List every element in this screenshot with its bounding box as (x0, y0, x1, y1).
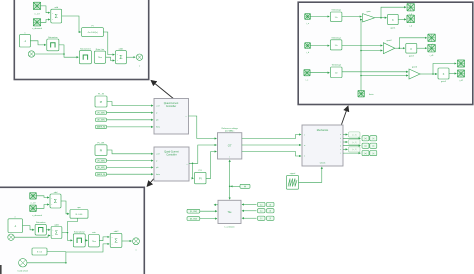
svg-text:+: + (51, 198, 52, 200)
svg-text:rpm: rpm (77, 206, 81, 209)
svg-text:Σ: Σ (55, 14, 58, 20)
svg-text:-2s+100/(s): -2s+100/(s) (87, 32, 98, 34)
svg-text:TimDelay1: TimDelay1 (331, 37, 341, 39)
svg-text:i_c: i_c (305, 79, 308, 81)
svg-text:PI: PI (100, 148, 103, 152)
svg-text:FL_W: FL_W (98, 94, 105, 96)
svg-text:+: + (111, 237, 112, 239)
svg-text:K: 0.5: K: 0.5 (37, 251, 43, 253)
svg-text:TimDelay0: TimDelay0 (331, 10, 341, 12)
svg-text:+: + (51, 204, 52, 206)
svg-text:(inv/TAB) c: (inv/TAB) c (225, 130, 235, 133)
svg-text:[w_fl]: [w_fl] (352, 134, 357, 136)
svg-text:[FL_MW]: [FL_MW] (98, 113, 105, 115)
svg-text:i_ref: i_ref (155, 104, 159, 107)
svg-text:T: T (304, 156, 305, 158)
svg-text:Saturation1: Saturation1 (80, 47, 91, 50)
svg-text:signal: signal (290, 173, 296, 175)
svg-text:Σ: Σ (114, 238, 117, 244)
svg-text:theta: theta (156, 173, 160, 176)
svg-text:PI: PI (100, 100, 103, 104)
svg-text:[BARR_W]: [BARR_W] (97, 126, 106, 129)
svg-text:n_ref: n_ref (35, 13, 40, 16)
svg-text:Σ: Σ (119, 55, 122, 61)
svg-text:+: + (52, 19, 53, 21)
svg-text:[BARR_W]: [BARR_W] (97, 173, 106, 176)
svg-text:hand wheel: hand wheel (18, 270, 29, 272)
svg-text:[w_fl]: [w_fl] (352, 149, 357, 151)
svg-text:Saturation: Saturation (48, 36, 58, 39)
svg-text:+: + (52, 235, 53, 237)
svg-text:C\T: C\T (228, 145, 232, 148)
svg-text:Mechanics: Mechanics (317, 129, 329, 132)
svg-text:[BL_MW]: [BL_MW] (190, 218, 197, 220)
svg-text:PI: PI (199, 177, 202, 181)
svg-text:Controller: Controller (166, 105, 177, 108)
svg-text:1/z: 1/z (335, 73, 338, 75)
svg-text:1/z: 1/z (335, 17, 338, 19)
svg-text:n_ref: n_ref (31, 202, 36, 205)
svg-text:Controller: Controller (166, 154, 177, 157)
svg-text:TimDelay2: TimDelay2 (331, 65, 341, 67)
svg-text:Tire: Tire (227, 211, 232, 214)
svg-text:gain2: gain2 (387, 40, 393, 42)
svg-text:Tlim: Tlim (92, 241, 96, 243)
svg-text:Tlim: Tlim (98, 57, 102, 59)
svg-text:n_demand: n_demand (32, 215, 43, 217)
svg-text:gain4: gain4 (412, 66, 418, 68)
svg-text:+: + (117, 60, 118, 62)
svg-text:[BL_MW]: [BL_MW] (98, 167, 105, 169)
svg-text:[w_fl]: [w_fl] (352, 142, 357, 144)
svg-text:n_demand: n_demand (32, 28, 43, 30)
svg-text:i_ref: i_ref (155, 153, 159, 156)
svg-text:N: 0.06: N: 0.06 (76, 214, 84, 216)
svg-text:Saturation: Saturation (36, 221, 46, 224)
svg-text:+: + (111, 244, 112, 246)
svg-text:+: + (52, 13, 53, 15)
svg-text:[FL_MW]: [FL_MW] (98, 160, 105, 162)
svg-text:gain3: gain3 (409, 56, 415, 58)
svg-text:[FL_MW]: [FL_MW] (190, 211, 197, 213)
svg-text:1/z: 1/z (335, 45, 338, 47)
svg-text:Saturation2: Saturation2 (74, 231, 85, 234)
svg-text:[BL_MW]: [BL_MW] (98, 120, 105, 122)
svg-text:Σ: Σ (54, 199, 57, 205)
svg-text:Σ: Σ (55, 230, 58, 236)
svg-text:+: + (52, 230, 53, 232)
svg-text:+: + (117, 54, 118, 56)
svg-text:FL_W1: FL_W1 (97, 142, 105, 144)
svg-text:1_unknown: 1_unknown (224, 226, 234, 228)
svg-text:wheels: wheels (320, 163, 326, 165)
svg-text:Rate Lim: Rate Lim (96, 48, 105, 51)
svg-text:i_d: i_d (409, 25, 412, 27)
svg-text:theta: theta (156, 126, 160, 129)
